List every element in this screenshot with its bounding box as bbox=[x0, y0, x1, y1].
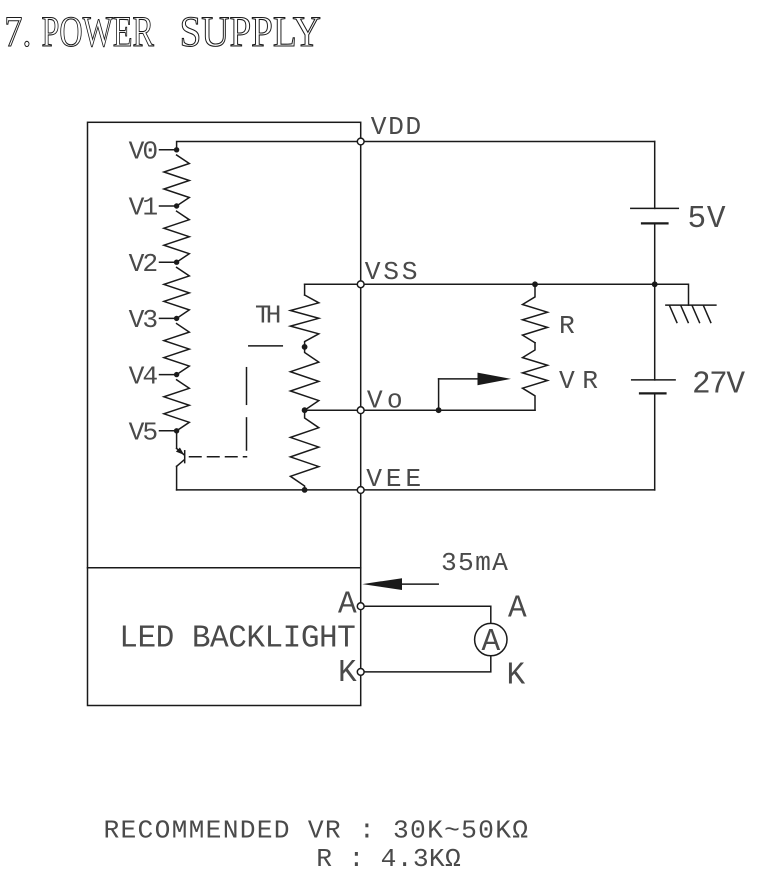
TH wiper tick bbox=[249, 345, 282, 347]
dashed link horizontal bbox=[190, 456, 247, 458]
ground symbol bbox=[666, 304, 716, 306]
wire wiper riser bbox=[438, 379, 440, 410]
svg-text:K: K bbox=[507, 659, 526, 694]
svg-text:V5: V5 bbox=[129, 418, 159, 448]
wire ground stub bbox=[655, 284, 689, 305]
svg-text:TH: TH bbox=[255, 301, 281, 331]
pin circle VSS bbox=[357, 281, 364, 288]
svg-text:7.: 7. bbox=[4, 8, 31, 56]
svg-text:SUPPLY: SUPPLY bbox=[180, 8, 321, 56]
resistor between V0 and V1 bbox=[164, 155, 189, 206]
wire V5 label stub bbox=[160, 430, 177, 432]
wire V2 label stub bbox=[160, 261, 177, 263]
svg-text:A: A bbox=[508, 592, 527, 627]
battery 27V minus plate bbox=[640, 392, 666, 394]
svg-text:V1: V1 bbox=[129, 193, 159, 223]
wire 27V to VEE bbox=[654, 393, 656, 490]
svg-text:LED BACKLIGHT: LED BACKLIGHT bbox=[119, 622, 355, 657]
node V4 junction dot bbox=[174, 372, 179, 377]
ammeter A1 body bbox=[475, 623, 507, 655]
pin circle Vo bbox=[357, 407, 364, 414]
pin circle VDD bbox=[357, 138, 364, 145]
wire VEE rail bbox=[177, 489, 655, 491]
node V2 junction dot bbox=[174, 260, 179, 265]
wire V0-VDD-5V top rail bbox=[177, 142, 655, 150]
svg-text:VEE: VEE bbox=[366, 464, 421, 494]
wire 5V battery drop bbox=[654, 142, 656, 209]
svg-text:R: R bbox=[559, 311, 575, 341]
wire VSS to 27V bbox=[654, 284, 656, 380]
battery 27V plus plate bbox=[632, 379, 675, 381]
svg-text:R : 4.3KΩ: R : 4.3KΩ bbox=[316, 844, 461, 872]
dashed link vertical lower bbox=[246, 418, 248, 450]
node TH upper dot bbox=[302, 344, 308, 350]
wire VSS rail bbox=[305, 283, 655, 285]
wire V4 label stub bbox=[160, 374, 177, 376]
wire V0 label stub bbox=[160, 149, 177, 151]
35mA arrow shaft bbox=[402, 583, 438, 585]
svg-text:27V: 27V bbox=[692, 368, 745, 403]
wiper arrow shaft bbox=[439, 378, 479, 380]
battery 5V minus plate bbox=[642, 222, 668, 224]
node arrow-Vo dot bbox=[436, 407, 442, 413]
node V5 junction dot bbox=[174, 428, 179, 433]
35mA arrowhead bbox=[362, 578, 402, 590]
svg-text:A: A bbox=[338, 588, 357, 623]
resistor Vo-VEE bbox=[290, 410, 318, 490]
svg-text:POWER: POWER bbox=[42, 8, 155, 56]
resistor TH lower bbox=[290, 347, 318, 410]
resistor between V2 and V3 bbox=[164, 267, 189, 318]
resistor R bbox=[523, 284, 548, 342]
wire V5 tap to VEE rail bbox=[176, 466, 178, 490]
backlight divider line bbox=[88, 567, 361, 569]
svg-text:VSS: VSS bbox=[365, 257, 418, 287]
wire TH top stub bbox=[304, 284, 306, 295]
battery 5V plus plate bbox=[631, 207, 679, 209]
potentiometer VR bbox=[523, 343, 548, 411]
node TH-Vo dot bbox=[302, 407, 308, 413]
svg-text:VDD: VDD bbox=[371, 112, 421, 142]
node V3 junction dot bbox=[174, 316, 179, 321]
wire Vo rail bbox=[305, 409, 535, 411]
pin circle VEE bbox=[357, 487, 364, 494]
pin circle K bbox=[357, 669, 364, 676]
tap lower diagonal bbox=[177, 460, 184, 466]
tap contact bar bbox=[184, 451, 186, 463]
wire anode to ammeter bbox=[361, 606, 491, 623]
svg-text:V4: V4 bbox=[129, 361, 159, 391]
wire V1 label stub bbox=[160, 205, 177, 207]
svg-text:A: A bbox=[481, 625, 500, 660]
node R-VSS dot bbox=[532, 281, 538, 287]
node V1 junction dot bbox=[174, 203, 179, 208]
wire 5V to VSS bbox=[654, 223, 656, 284]
node V0 junction dot bbox=[174, 147, 179, 152]
tap upper diagonal with arrowhead bbox=[177, 448, 184, 454]
svg-text:35mA: 35mA bbox=[441, 548, 508, 578]
wire V3 label stub bbox=[160, 317, 177, 319]
svg-text:V0: V0 bbox=[129, 137, 159, 167]
resistor between V4 and V5 bbox=[164, 380, 189, 431]
resistor between V1 and V2 bbox=[164, 211, 189, 262]
pin circle A bbox=[357, 603, 364, 610]
svg-text:V3: V3 bbox=[129, 305, 159, 335]
svg-text:V2: V2 bbox=[129, 249, 159, 279]
wire below V5 bbox=[176, 431, 178, 449]
svg-text:RECOMMENDED VR : 30K~50KΩ: RECOMMENDED VR : 30K~50KΩ bbox=[104, 816, 529, 846]
node VSS-right dot bbox=[652, 281, 658, 287]
wire ammeter to cathode bbox=[361, 656, 491, 672]
resistor TH upper bbox=[290, 295, 318, 347]
node TH-VEE dot bbox=[302, 487, 308, 493]
wiper arrowhead bbox=[478, 373, 512, 386]
LCD module outline box bbox=[88, 122, 361, 705]
dashed link vertical upper bbox=[246, 368, 248, 405]
svg-text:5V: 5V bbox=[688, 202, 726, 237]
svg-text:K: K bbox=[338, 656, 357, 691]
resistor between V3 and V4 bbox=[164, 324, 189, 375]
